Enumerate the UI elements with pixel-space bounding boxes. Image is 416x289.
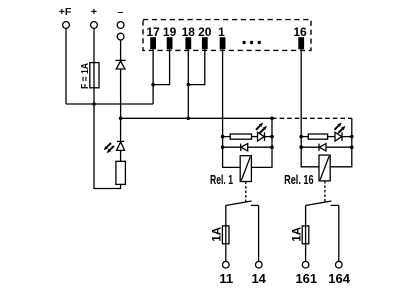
pin 20 [202, 37, 208, 49]
svg-text:17: 17 [146, 25, 160, 39]
wire contact 164 down [338, 205, 340, 261]
wire switch pole to fuse relay 1 [225, 206, 227, 226]
wire rail A [66, 103, 153, 105]
pin 18 [185, 37, 191, 49]
wire relay 16 right branch [331, 118, 352, 167]
svg-text:Rel. 16: Rel. 16 [284, 173, 314, 187]
fuse F1 [90, 63, 99, 88]
terminal +F [63, 22, 70, 29]
node relay 16 diode row right [350, 145, 354, 149]
diode D1 reverse protection [115, 60, 125, 141]
LED relay 1 emission arrows [256, 123, 267, 134]
fuse F2 wire through [225, 226, 227, 262]
pin 1 [220, 37, 226, 49]
svg-text:19: 19 [163, 25, 177, 39]
terminal 14 [255, 261, 262, 268]
LED relay 16 [335, 132, 352, 141]
LED power indicator emission arrows [104, 143, 114, 153]
wire pin 18 down to rail B [187, 48, 189, 118]
relay coil K16 [319, 155, 330, 181]
svg-text:+: + [91, 6, 97, 18]
terminal 164 [336, 261, 343, 268]
wire relay 16 resistor row left [301, 136, 308, 138]
node relay 1 resistor row right [270, 135, 274, 139]
LED power indicator [117, 141, 125, 161]
node rail B junction minus [119, 117, 123, 121]
freewheel diode relay 16 [301, 144, 352, 151]
mechanical link relay 1 [245, 182, 247, 203]
fuse F3 [302, 226, 309, 244]
wire pin 19 bracket to 17 [153, 48, 170, 85]
svg-text:+F: +F [59, 6, 72, 18]
wire contact 14 down [258, 205, 260, 261]
fuse F2 [222, 226, 229, 244]
wire pin 16 down to relay 16 coil [301, 48, 319, 167]
LED relay 16 emission arrows [335, 123, 346, 134]
terminal + [91, 22, 98, 29]
svg-text:164: 164 [328, 271, 350, 286]
resistor R3 relay 16 [308, 134, 327, 139]
node relay 16 diode row left [299, 145, 303, 149]
svg-text:161: 161 [295, 271, 317, 286]
svg-text:11: 11 [219, 271, 233, 286]
pin 16 [298, 37, 304, 49]
freewheel diode relay 1 [223, 144, 272, 151]
wire + down to indicator return [94, 88, 121, 189]
node relay 1 diode row left [221, 145, 225, 149]
terminal - upper [117, 22, 124, 29]
node relay 1 diode row right [270, 145, 274, 149]
switch contact relay 16 [306, 201, 339, 206]
wire relay 1 right branch [251, 118, 272, 167]
wire rail B dashed continuation [272, 117, 352, 119]
wire resistor to LED relay 16 [328, 136, 335, 138]
wire pin 20 bracket to 18 [188, 48, 205, 85]
svg-text:1A: 1A [211, 227, 223, 242]
dashed module outline box [143, 20, 311, 51]
fuse F3 wire through [305, 226, 307, 262]
svg-text:16: 16 [293, 25, 307, 39]
wire pin 1 down to relay 1 coil [223, 48, 241, 167]
svg-text:20: 20 [198, 25, 212, 39]
resistor R1 indicator [116, 161, 126, 184]
pin 19 [167, 37, 173, 49]
svg-text:14: 14 [251, 271, 266, 286]
wire relay 1 resistor row left [223, 136, 231, 138]
svg-text:F = 1A: F = 1A [79, 63, 91, 89]
wire resistor to LED relay 1 [252, 136, 258, 138]
terminal 11 [223, 261, 230, 268]
wire pin 17 down to rail A [152, 48, 154, 104]
node rail B junction relay 1 [270, 117, 274, 121]
node relay 1 resistor row left [221, 135, 225, 139]
node junction 17-19 [151, 83, 155, 87]
svg-text:1A: 1A [291, 227, 303, 242]
pin 17 [150, 37, 156, 49]
resistor R2 relay 1 [230, 134, 251, 139]
terminal 161 [302, 261, 309, 268]
wire rail B solid [121, 117, 272, 119]
ellipsis dots [242, 41, 260, 44]
svg-text:–: – [117, 6, 123, 18]
terminal - lower [117, 33, 124, 40]
wire + to fuse [93, 28, 95, 62]
svg-text:18: 18 [182, 25, 196, 39]
switch contact relay 1 [226, 201, 259, 206]
node relay 16 resistor row right [350, 135, 354, 139]
svg-text:1: 1 [218, 25, 225, 39]
wire switch pole to fuse relay 16 [305, 206, 307, 226]
LED relay 1 [258, 132, 273, 141]
wire +F down [65, 28, 67, 104]
wire - to diode [120, 40, 122, 60]
mechanical link relay 16 [324, 181, 326, 202]
fuse F1 wire through [93, 63, 95, 88]
relay coil K1 [240, 156, 251, 182]
node rail A junction [92, 102, 96, 106]
node relay 16 resistor row left [299, 135, 303, 139]
node rail B junction 18 [187, 117, 191, 121]
svg-text:Rel. 1: Rel. 1 [210, 173, 233, 187]
node junction 18-20 [187, 83, 191, 87]
